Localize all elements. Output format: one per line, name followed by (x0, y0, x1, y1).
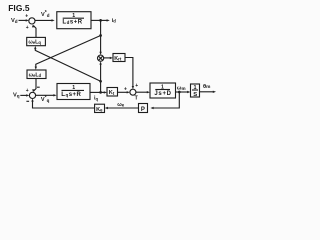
wire iq up to multiplier (100, 64, 102, 93)
svg-text:Krt: Krt (114, 56, 122, 62)
block Ke (95, 104, 105, 112)
sum junction S1 (29, 18, 35, 24)
junction dot iq (99, 91, 102, 94)
wire P to block Ke (108, 107, 139, 109)
block B1 1/(Lds+R) (57, 12, 91, 29)
svg-text:V*q: V*q (41, 95, 50, 103)
svg-text:Kt: Kt (109, 90, 115, 96)
svg-text:+: + (135, 83, 138, 89)
svg-text:+: + (124, 86, 127, 92)
wire B3 to block B4 (176, 91, 188, 93)
svg-text:V*d: V*d (41, 10, 50, 18)
svg-text:T: T (135, 96, 139, 102)
multiplier junction (id x iq) (98, 55, 104, 61)
wire ωm feedback down to P (153, 92, 179, 108)
svg-text:ωm: ωm (177, 85, 186, 91)
wire B1 to node id (91, 19, 107, 21)
svg-text:+: + (25, 13, 28, 19)
wire Kt to sum S3 (118, 91, 128, 93)
svg-text:Vd: Vd (11, 18, 18, 24)
svg-text:ωe: ωe (117, 102, 125, 108)
sum junction S3 (130, 89, 136, 95)
svg-text:ωeLd: ωeLd (29, 72, 42, 78)
block Kt (107, 88, 118, 97)
block ωeLd (27, 70, 46, 79)
minus sign (ωeLd input) (37, 86, 40, 88)
wire S1 to block B1 (35, 19, 52, 21)
wire B4 to output θm (200, 91, 214, 93)
wire ωeLq to sum S1 (34, 26, 37, 38)
wire B2 to block Kt (90, 91, 104, 93)
svg-text:FIG.5: FIG.5 (8, 3, 30, 13)
svg-text:Ke: Ke (96, 107, 103, 113)
svg-text:P: P (141, 107, 145, 113)
svg-text:+: + (26, 88, 29, 94)
junction dot id branch (99, 34, 102, 37)
svg-text:id: id (112, 18, 117, 24)
block Krt (113, 54, 125, 62)
wire S2 to block B2 (36, 94, 54, 96)
svg-text:S: S (193, 92, 197, 98)
wire Vq to sum S2 (20, 94, 26, 96)
block ωeLq (27, 37, 46, 45)
svg-text:ωeLq: ωeLq (28, 40, 41, 46)
sum junction S2 (29, 92, 35, 98)
svg-text:Vq: Vq (13, 93, 20, 99)
junction dot id (99, 19, 102, 22)
minus sign (Ke input) (26, 100, 29, 102)
wire Ke to sum S2 (33, 101, 95, 108)
svg-text:+: + (26, 25, 29, 31)
wire diagonal id to ωeLd block (36, 36, 101, 68)
wire S3 to block B3 (136, 91, 147, 93)
wire Krt to sum S3 (125, 58, 133, 87)
wire id down to multiplier (100, 20, 102, 52)
svg-text:θm: θm (203, 84, 210, 90)
block B2 1/(Lqs+R) (57, 84, 90, 100)
wire Vd to sum S1 (19, 19, 27, 21)
block B4 1/S (191, 84, 200, 97)
wire ωeLd to sum S2 (34, 79, 36, 92)
wire multiplier to block Krt (104, 57, 111, 59)
svg-text:Js+D: Js+D (154, 91, 171, 97)
block B3 1/(Js+D) (150, 83, 176, 98)
svg-text:iq: iq (94, 96, 99, 102)
wire diagonal iq to ωeLq block (35, 48, 100, 81)
svg-text:Lds+R: Lds+R (62, 18, 82, 25)
svg-text:Lqs+R: Lqs+R (61, 91, 81, 98)
junction dot iq branch (99, 80, 102, 83)
block P (139, 104, 148, 113)
junction dot ωm (178, 91, 181, 94)
